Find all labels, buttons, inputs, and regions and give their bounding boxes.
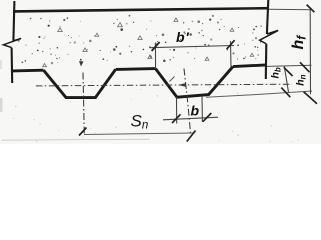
arrowhead on axis line — [178, 83, 186, 87]
hb bottom tick — [281, 88, 290, 98]
concrete texture dots in flange — [13, 15, 299, 143]
right break zigzag — [260, 30, 279, 44]
flange bottom extension line (right) — [267, 65, 312, 66]
b left tick — [172, 114, 181, 123]
right cut edge lower — [265, 44, 268, 79]
faint artifact line bottom-left — [2, 139, 150, 140]
flange bottom edge middle segment (thick) — [116, 67, 156, 71]
b' right extension line — [230, 41, 233, 68]
hn bottom tick — [304, 92, 317, 104]
svg-text:b′: b′ — [176, 29, 189, 45]
b dimension line — [163, 117, 218, 120]
left cut edge upper — [13, 1, 14, 41]
Sn right tick — [187, 131, 196, 142]
hb top tick — [284, 67, 293, 76]
right rib outline (thick) — [156, 67, 234, 98]
b' right tick — [227, 40, 235, 49]
horizontal dash-dot axis line — [36, 84, 292, 86]
b left extension line — [176, 98, 178, 124]
rib bottom extension line (right) — [206, 91, 312, 97]
top flange edge (thick) — [13, 8, 269, 11]
right rib centerline (dash-dot vertical) — [184, 69, 191, 133]
Sn dimension line — [84, 133, 193, 135]
paper background — [0, 0, 321, 144]
right cut edge upper — [267, 0, 268, 34]
hf/hn dimension line (long vertical right) — [309, 9, 311, 94]
hf top tick — [307, 5, 315, 13]
hf top extension line — [269, 8, 312, 11]
flange bottom edge left segment (thick) — [13, 69, 44, 73]
hb dimension line — [284, 67, 288, 93]
b right extension line — [201, 96, 203, 123]
b' left tick — [152, 42, 160, 51]
left rib centerline (dash-dot vertical) — [83, 73, 84, 135]
b' dimension line — [150, 46, 235, 48]
left break zigzag — [3, 38, 21, 47]
scan smudge left edge — [0, 98, 3, 112]
left rib outline (thick) — [44, 69, 116, 97]
left cut edge lower — [11, 48, 14, 83]
svg-text:b: b — [191, 103, 200, 119]
flange bottom edge right segment (thick) — [233, 65, 267, 67]
b' left extension line — [154, 43, 156, 70]
Sn left tick — [79, 128, 87, 136]
small slash mark above axis — [170, 77, 175, 82]
hf bottom / hn top tick — [300, 62, 310, 72]
b right tick — [203, 113, 212, 122]
